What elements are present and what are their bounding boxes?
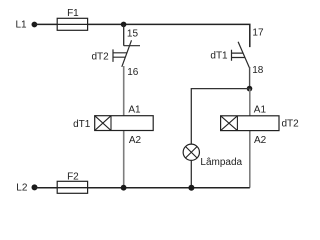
svg-text:dT1: dT1 <box>73 119 91 130</box>
svg-text:F1: F1 <box>67 8 79 19</box>
wire top rail L1 <box>34 24 249 47</box>
fuse F2 <box>57 181 87 193</box>
contact dT2 fixed seat <box>124 45 140 47</box>
contact dT1 blade (NC, mirrored) <box>238 42 249 68</box>
svg-text:15: 15 <box>127 28 139 39</box>
svg-text:A1: A1 <box>254 105 267 116</box>
wire lamp to L2 rail <box>190 160 192 187</box>
wire junction to coil dT2 and to L2 rail <box>249 89 251 188</box>
svg-text:dT2: dT2 <box>282 118 300 129</box>
svg-text:dT2: dT2 <box>91 52 109 63</box>
svg-text:L1: L1 <box>15 20 27 31</box>
svg-text:F2: F2 <box>67 171 79 182</box>
svg-text:A1: A1 <box>128 105 141 116</box>
svg-text:16: 16 <box>127 67 139 78</box>
svg-text:17: 17 <box>252 28 264 39</box>
fuse F1 <box>57 18 87 30</box>
contact dT2 actuator <box>113 49 127 62</box>
svg-text:18: 18 <box>252 65 264 76</box>
wire junction to contact dT2 <box>123 24 125 45</box>
contact dT2 blade (NC) <box>122 40 132 67</box>
wire junction to lamp branch <box>191 89 249 145</box>
svg-text:L2: L2 <box>16 183 28 194</box>
coil dT2 <box>221 116 279 131</box>
coil dT1 <box>95 116 154 131</box>
node L2 terminal dot <box>32 184 38 190</box>
wire through fuse F2 <box>57 187 87 189</box>
svg-text:dT1: dT1 <box>210 51 228 62</box>
junction node bottom lamp <box>188 185 194 191</box>
wire bottom rail L2 <box>35 187 250 189</box>
junction node top <box>121 22 127 28</box>
wire contact dT1 to junction <box>249 67 251 89</box>
svg-text:A2: A2 <box>254 135 267 146</box>
svg-text:Lâmpada: Lâmpada <box>200 157 242 168</box>
junction node bottom left <box>121 185 127 191</box>
contact dT1 actuator <box>232 50 245 61</box>
junction node right <box>247 86 253 92</box>
node L1 terminal dot <box>32 22 38 28</box>
lamp <box>183 144 199 160</box>
svg-text:A2: A2 <box>129 135 142 146</box>
wire through fuse F1 <box>57 23 87 25</box>
wire contact dT2 to L2 rail (through coil dT1) <box>123 66 125 188</box>
